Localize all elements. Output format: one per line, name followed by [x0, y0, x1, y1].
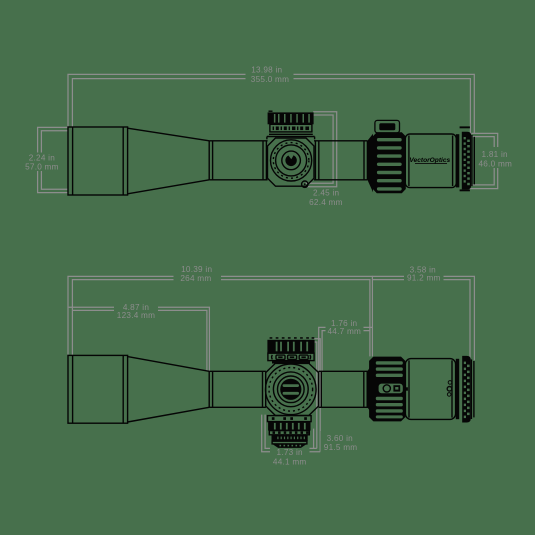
top view: eyepiece end rim	[472, 135, 474, 186]
top view: eyepiece logo text	[409, 157, 450, 164]
bottom view: bottom turret lower ring	[272, 441, 307, 444]
bottom view: elevation turret slotted cap	[280, 379, 301, 400]
dimension label 2.24 in / 57.0 mm	[25, 153, 60, 172]
bottom view: turret saddle octagon	[266, 363, 319, 415]
dimension: objective length 4.87 in bracket	[69, 307, 210, 371]
svg-text:2.24 in: 2.24 in	[29, 153, 56, 162]
top view: parallax knob outer ring	[271, 140, 312, 181]
bottom view: front tube section	[209, 371, 266, 407]
bottom view: elevation turret inner ring	[278, 376, 305, 403]
dimension: turret width 1.73 in bracket	[262, 415, 321, 452]
top view: diopter knurled ring	[462, 132, 471, 190]
bottom view: bottom turret tab band	[269, 431, 309, 435]
svg-text:VectorOptics: VectorOptics	[409, 157, 450, 164]
top view: diopter ring bottom cap	[460, 189, 470, 191]
top view: power ring ribs	[377, 138, 402, 191]
bottom view: elevation turret knurl dashes	[269, 368, 313, 412]
top view: front tube section	[209, 141, 267, 180]
svg-text:91.5 mm: 91.5 mm	[324, 443, 358, 452]
bottom view: rear tube section	[319, 371, 369, 407]
bottom view: power ring body	[369, 357, 405, 422]
svg-text:3.60 in: 3.60 in	[327, 434, 354, 443]
bottom view: elevation turret outer ring	[266, 364, 317, 415]
top view: diopter ring front band	[456, 134, 459, 187]
dimension label 1.81 in / 46.0 mm	[477, 147, 515, 168]
svg-text:355.0 mm: 355.0 mm	[251, 75, 289, 84]
bottom view: throw lever window	[379, 384, 408, 394]
svg-text:44.1 mm: 44.1 mm	[273, 458, 307, 467]
bottom view: bottom turret knurled band	[268, 422, 310, 431]
top view: saddle screw	[302, 181, 308, 187]
dimension: turret span 3.60 in bracket	[314, 339, 320, 452]
svg-text:57.0 mm: 57.0 mm	[25, 163, 59, 172]
bottom view: objective bell	[68, 355, 128, 423]
dimension: overall length 13.98 in bracket	[68, 74, 474, 136]
top view: parallax knob knurl dashes	[273, 143, 309, 179]
dimension: rear length 3.58 in bracket	[372, 276, 474, 360]
bottom view: side turret knurled band	[267, 340, 314, 353]
dimension: turret height 2.45 in bracket	[306, 112, 337, 187]
dimension label 1.73 in / 44.1 mm	[270, 447, 310, 468]
svg-text:62.4 mm: 62.4 mm	[309, 198, 343, 207]
top view: parallax knob inner ring	[282, 151, 301, 170]
dimension label 1.76 in / 44.7 mm	[326, 318, 364, 337]
bottom view: side turret serration dots	[270, 337, 315, 339]
top view: parallax knob middle ring	[276, 145, 307, 176]
top view: rear tube section	[314, 141, 367, 180]
top view: elevation turret index mark	[269, 110, 273, 112]
bottom view: eyepiece logo emblem	[447, 381, 452, 397]
svg-text:1.81 in: 1.81 in	[482, 150, 509, 159]
top view: eyepiece body	[405, 134, 456, 188]
top view: objective bell	[68, 127, 128, 195]
svg-text:91.2 mm: 91.2 mm	[407, 274, 441, 283]
top view: turret saddle plate	[268, 138, 315, 186]
dimension label 3.60 in / 91.5 mm	[321, 431, 361, 453]
top view: elevation turret base flange	[267, 134, 315, 139]
dimension: eyepiece diameter 1.81 in bracket	[469, 133, 498, 188]
bottom view: side turret marks band	[268, 353, 314, 360]
top view: power ring left chamfer	[367, 134, 373, 192]
bottom view: bottom turret base band	[268, 416, 312, 422]
top view: power ring body	[373, 132, 406, 193]
dimension label 2.45 in / 62.4 mm	[309, 188, 343, 207]
svg-text:10.39 in: 10.39 in	[181, 265, 212, 274]
dimension: mounting space 1.76 in bracket	[319, 327, 373, 371]
bottom view: eyepiece body	[405, 359, 455, 420]
top view: parallax knob center hub	[285, 154, 296, 167]
bottom view: bottom turret scale band	[272, 435, 308, 441]
top view: taper cone	[128, 128, 210, 194]
dimension label 3.58 in / 91.2 mm	[404, 263, 444, 283]
svg-text:1.73 in: 1.73 in	[277, 448, 304, 457]
svg-text:46.0 mm: 46.0 mm	[478, 159, 512, 168]
bottom view: eyepiece end rim	[471, 359, 474, 419]
bottom view: power ring ribs	[376, 361, 403, 418]
dimension label 4.87 in / 123.4 mm	[114, 302, 158, 321]
bottom view: elevation turret middle ring	[273, 372, 308, 407]
dimension label 10.39 in / 264 mm	[174, 264, 222, 284]
bottom view: power ring left chamfer	[367, 362, 373, 416]
top view: elevation turret knurled cap	[268, 112, 314, 124]
bottom view: side turret neck	[272, 361, 310, 364]
bottom view: diopter knurled ring	[462, 356, 471, 423]
svg-text:2.45 in: 2.45 in	[313, 188, 340, 197]
svg-text:44.7 mm: 44.7 mm	[327, 327, 361, 336]
dimension: objective diameter 2.24 in bracket	[38, 127, 69, 192]
bottom view: taper cone	[128, 357, 210, 422]
svg-text:264 mm: 264 mm	[180, 274, 211, 283]
bottom view: bottom turret end cap	[272, 444, 307, 448]
top view: elevation turret scale band	[270, 124, 312, 132]
dimension label 13.98 in / 355.0 mm	[246, 65, 294, 85]
svg-text:123.4 mm: 123.4 mm	[117, 311, 155, 320]
top view: diopter ring top cap	[460, 126, 470, 128]
dimension: length to turret 10.39 in bracket	[68, 276, 372, 356]
bottom view: diopter ring front band	[456, 359, 459, 419]
top view: throw lever	[375, 120, 400, 132]
svg-text:13.98 in: 13.98 in	[251, 66, 282, 75]
